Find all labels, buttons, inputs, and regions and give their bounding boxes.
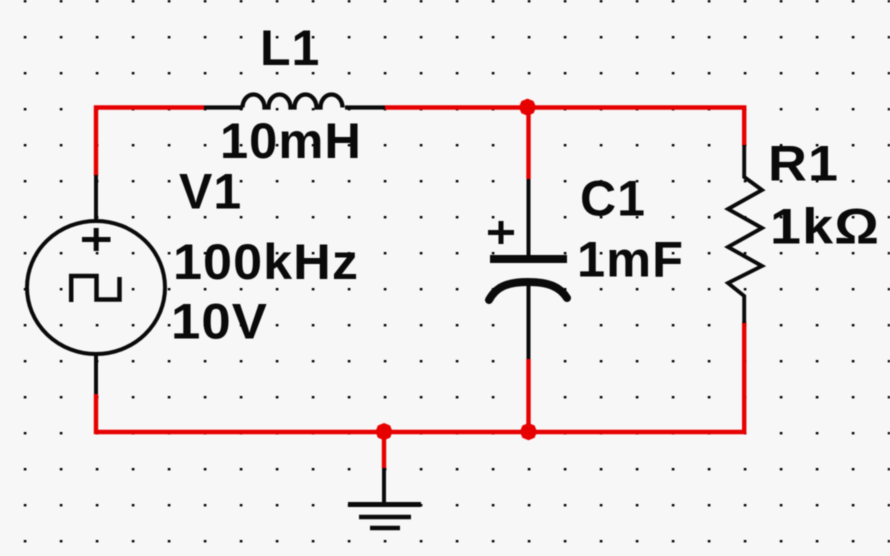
wire V1 bottom lead black [94,353,98,395]
svg-text:1mF: 1mF [577,232,684,288]
svg-text:10V: 10V [171,294,268,350]
C1 bottom curved plate [489,282,567,300]
svg-text:L1: L1 [260,20,320,76]
wire C1 bottom lead black [527,286,531,359]
wire C1 top lead black [527,179,531,256]
V1 plus sign [82,237,111,242]
wire top-right corner (L1 to R1) [385,108,744,147]
wire C1 branch red (bottom) [526,359,530,432]
wire bottom rail with left and right risers [96,322,744,432]
junction node B (bottom, C1) [520,423,537,440]
ground stem red [382,432,386,468]
wire top-left corner (V1 to L1) [96,108,204,177]
wire V1 top lead black [94,175,98,222]
C1 top plate [490,255,567,263]
inductor L1 [204,95,385,108]
svg-text:R1: R1 [768,136,839,192]
V1 square-wave glyph [71,276,119,302]
capacitor C1 [488,221,567,300]
wire C1 branch red (top) [526,108,530,180]
L1 left lead [204,105,243,109]
junction node ground [375,423,392,440]
junction node A (top, L1/C1/R1) [519,99,536,116]
svg-text:C1: C1 [580,171,646,227]
svg-text:V1: V1 [179,164,242,220]
L1 coil [243,95,343,108]
source V1 [27,221,165,354]
resistor R1 [728,145,762,323]
L1 right lead [345,105,385,109]
svg-text:1kΩ: 1kΩ [770,199,880,255]
svg-text:100kHz: 100kHz [173,234,359,290]
C1 plus sign [488,230,514,235]
ground [348,468,421,528]
svg-text:10mH: 10mH [220,113,362,169]
